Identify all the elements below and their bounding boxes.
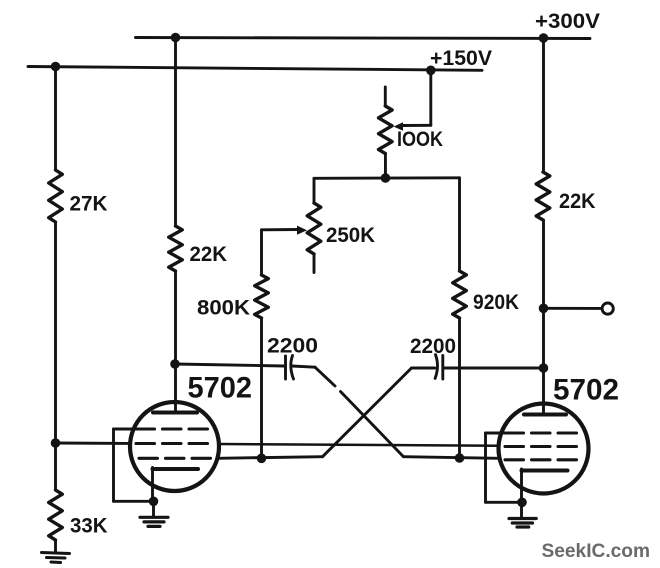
svg-text:920K: 920K	[473, 291, 519, 314]
svg-text:27K: 27K	[70, 193, 108, 216]
svg-text:33K: 33K	[70, 515, 108, 538]
svg-text:250K: 250K	[326, 224, 375, 247]
svg-text:5702: 5702	[553, 374, 619, 407]
svg-text:2200: 2200	[410, 335, 456, 358]
svg-text:5702: 5702	[188, 372, 253, 405]
svg-text:800K: 800K	[197, 297, 250, 320]
svg-text:IOOK: IOOK	[397, 128, 443, 151]
svg-text:SeekIC.com: SeekIC.com	[542, 540, 651, 562]
svg-text:+300V: +300V	[535, 9, 601, 33]
svg-text:22K: 22K	[190, 243, 228, 266]
svg-text:2200: 2200	[267, 335, 318, 358]
svg-text:+150V: +150V	[430, 46, 493, 70]
svg-text:22K: 22K	[559, 190, 596, 213]
